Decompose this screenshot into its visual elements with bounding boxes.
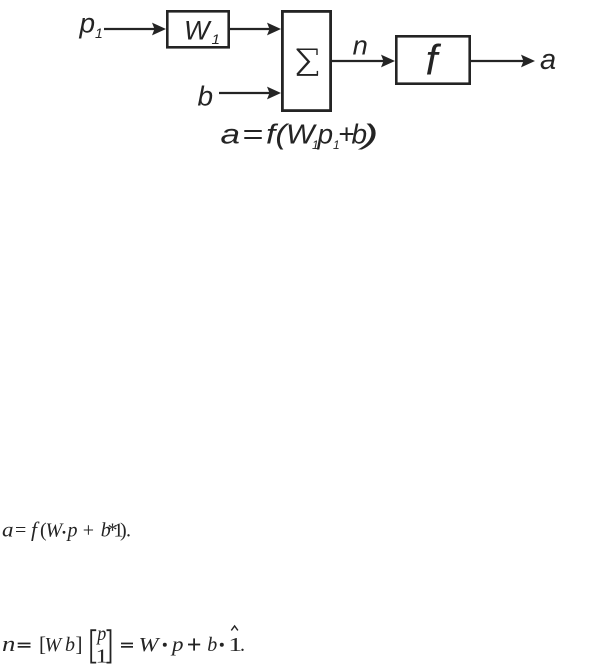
svg-text:1: 1 xyxy=(212,31,221,47)
arrowhead into sum (bottom) xyxy=(267,87,281,100)
svg-text:n: n xyxy=(2,631,15,656)
summation box xyxy=(282,11,330,110)
svg-text:W: W xyxy=(184,16,212,46)
wire f to output xyxy=(471,60,524,62)
svg-text:=: = xyxy=(15,520,26,542)
arrowhead to output a xyxy=(521,55,535,68)
svg-text:p: p xyxy=(170,634,184,656)
wire sum to f xyxy=(332,60,384,62)
hat accent over 1 xyxy=(231,626,238,631)
svg-text:p: p xyxy=(317,119,334,150)
svg-text:.: . xyxy=(240,634,245,656)
svg-text:a: a xyxy=(540,44,556,76)
svg-text:n: n xyxy=(353,31,368,61)
arrowhead into sum (top) xyxy=(267,23,281,36)
svg-text:1: 1 xyxy=(95,25,103,41)
svg-text:p: p xyxy=(66,520,78,542)
input label p1 xyxy=(79,8,103,42)
svg-text:f: f xyxy=(31,518,40,542)
svg-text:]: ] xyxy=(76,632,83,656)
column vector bracket right xyxy=(107,630,111,662)
svg-text:.: . xyxy=(126,520,131,542)
column vector bracket left xyxy=(91,630,96,662)
svg-text:=: = xyxy=(242,119,263,150)
cdot xyxy=(220,643,224,647)
equals sign 2 xyxy=(121,643,133,645)
svg-text:p: p xyxy=(79,8,96,39)
cdot xyxy=(163,643,167,647)
svg-text:W: W xyxy=(139,634,162,656)
wire W1 to sum xyxy=(230,28,270,30)
wire p1 to W1 xyxy=(104,28,155,30)
cdot xyxy=(63,531,66,534)
wire b to sum xyxy=(219,92,270,94)
arrowhead into W1 xyxy=(152,23,166,36)
plus sign xyxy=(188,644,200,646)
label W1 xyxy=(184,16,220,48)
svg-text:p: p xyxy=(95,623,106,645)
svg-text:a: a xyxy=(2,520,14,542)
svg-text:a: a xyxy=(221,119,241,150)
svg-text:1: 1 xyxy=(96,645,108,667)
equals sign xyxy=(18,643,31,645)
formula n = [W b][p;1] = Wp + b1hat xyxy=(2,623,245,667)
sigma symbol xyxy=(297,49,318,76)
svg-text:b: b xyxy=(65,634,75,656)
transfer function box f xyxy=(396,36,469,83)
svg-text:+: + xyxy=(83,520,94,542)
formula a = f(Wp + b*1). xyxy=(2,518,131,542)
svg-text:W: W xyxy=(46,520,65,542)
svg-text:b: b xyxy=(198,81,214,112)
caption a = f(W1p1+b) xyxy=(221,119,379,153)
arrowhead into f xyxy=(381,55,395,68)
svg-text:W: W xyxy=(45,634,64,656)
weight box W1 xyxy=(167,11,228,47)
svg-text:b: b xyxy=(207,634,217,656)
